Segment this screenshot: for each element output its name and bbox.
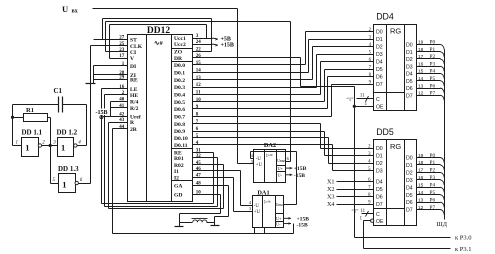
svg-text:X3: X3 (327, 194, 335, 201)
svg-text:D0.2: D0.2 (174, 78, 185, 84)
svg-text:D0.8: D0.8 (174, 122, 185, 128)
wire input node vertical (12, 105, 14, 146)
svg-text:+U: +U (254, 210, 261, 215)
inverter DD1.1 (22, 138, 39, 157)
svg-text:D6: D6 (406, 200, 413, 206)
svg-text:-15B: -15B (96, 110, 108, 116)
svg-text:D0.5: D0.5 (174, 100, 185, 106)
bus entry P1 DD5 (440, 165, 444, 170)
svg-text:D0.3: D0.3 (174, 85, 185, 91)
svg-text:D5: D5 (376, 187, 383, 193)
svg-text:D0: D0 (406, 156, 413, 162)
wire DD4 C (357, 98, 374, 100)
wire DR to OE and P3.0 (193, 57, 301, 59)
svg-text:D0.7: D0.7 (174, 114, 185, 120)
wire ZO to ST loop (94, 39, 128, 41)
wire R1 left to input node (13, 117, 24, 119)
wire DD4 Q4 (417, 73, 441, 75)
svg-text:к Р3.1: к Р3.1 (455, 246, 472, 253)
svg-text:1: 1 (25, 143, 29, 153)
separator right col 3 (172, 148, 193, 150)
wire DD12 pin 40 (111, 101, 128, 103)
wire D0.0 to DD4 D0 (193, 64, 306, 66)
svg-text:▷∞: ▷∞ (266, 152, 274, 157)
wire D0.5 to DD4 D5 (193, 101, 325, 103)
svg-text:X1: X1 (327, 179, 335, 186)
inversion bubble DD1.3 (75, 181, 78, 184)
svg-text:D4: D4 (376, 180, 383, 186)
register DD5 box (374, 140, 417, 226)
wire feedback node down to DD1.3 input (50, 146, 52, 184)
svg-text:R02: R02 (174, 163, 184, 169)
svg-text:P7: P7 (430, 205, 436, 211)
svg-text:1: 1 (61, 143, 65, 153)
svg-text:D7: D7 (376, 82, 383, 88)
bus entry P4 DD5 (440, 187, 444, 192)
wire rail up to DA1 U- (293, 224, 295, 234)
ground bar (86, 83, 96, 85)
svg-text:D6: D6 (376, 75, 383, 81)
wire DD1.2 out up to C1 right plate (78, 145, 87, 147)
svg-text:P6: P6 (430, 197, 436, 203)
svg-text:D5: D5 (406, 193, 413, 199)
svg-text:D0.4: D0.4 (174, 93, 185, 99)
wire DD4 OE (355, 106, 374, 108)
wire D0.11 to DD5 D3 (193, 144, 333, 146)
svg-text:44: 44 (119, 125, 125, 130)
separator right col 2 (172, 61, 193, 63)
wire X3 (337, 196, 374, 198)
svg-text:LE: LE (130, 87, 138, 93)
bus entry P3 DD5 (440, 180, 444, 185)
svg-text:D0.1: D0.1 (174, 70, 185, 76)
bus entry P2 (440, 59, 444, 64)
svg-text:P0: P0 (430, 153, 436, 159)
svg-text:18: 18 (418, 47, 424, 53)
wire DD5 Q4 (417, 187, 441, 189)
inductor core line (192, 218, 208, 220)
svg-text:45: 45 (196, 161, 202, 166)
svg-text:U+: U+ (276, 216, 282, 221)
wire X4 (337, 204, 374, 206)
svg-text:18: 18 (418, 160, 424, 166)
bus entry P5 (440, 81, 444, 86)
wire DD4 Q6 (417, 88, 441, 90)
svg-text:ZO: ZO (174, 50, 183, 56)
svg-text:D3: D3 (376, 52, 383, 58)
svg-text:16: 16 (119, 85, 125, 90)
svg-text:Uвых: Uвых (277, 159, 286, 163)
svg-text:RE: RE (130, 78, 138, 84)
svg-text:RG: RG (390, 27, 401, 36)
wire R1 right feedback (48, 117, 51, 119)
svg-text:OE: OE (376, 219, 384, 225)
svg-text:ШД: ШД (437, 221, 448, 228)
svg-text:D5: D5 (406, 79, 413, 85)
wire D0.8 to DD5 D0 (193, 123, 321, 125)
wire 2R to bottom rail (112, 129, 114, 234)
svg-text:GA: GA (174, 184, 182, 190)
svg-text:к Р3.0: к Р3.0 (455, 234, 472, 241)
DD5 OE bubble (371, 219, 374, 222)
wire DD12 pin 29 (94, 79, 128, 81)
svg-text:DD 1.2: DD 1.2 (57, 128, 78, 136)
bus entry P3 (440, 66, 444, 71)
terminal +5B (213, 38, 219, 39)
svg-text:V: V (130, 56, 134, 62)
DD5 C OE separator (374, 208, 405, 210)
svg-text:D7: D7 (406, 93, 413, 99)
wire DD1.1 out to DD1.2 in (42, 145, 58, 147)
wire Uin vertical down to DA2 +U (237, 9, 239, 164)
bus entry P5 DD5 (440, 195, 444, 200)
svg-text:R/4: R/4 (130, 99, 139, 105)
svg-text:HE: HE (130, 93, 138, 99)
svg-text:Ucc2: Ucc2 (174, 42, 186, 48)
bus entry P0 DD5 (440, 158, 444, 163)
svg-text:D1: D1 (376, 37, 383, 43)
svg-text:“1”: “1” (352, 208, 359, 214)
inversion bubble DD1.1 (38, 144, 41, 147)
svg-text:“1”: “1” (347, 97, 354, 103)
svg-text:Uвых: Uвых (276, 203, 285, 207)
svg-text:+15B: +15B (294, 166, 307, 172)
svg-text:D4: D4 (406, 185, 413, 191)
wire D0.7 to DD4 D7 (193, 116, 332, 118)
svg-text:D2: D2 (376, 45, 383, 51)
register DD4 box (374, 25, 417, 111)
svg-text:D0.11: D0.11 (174, 143, 188, 149)
svg-text:C: C (376, 97, 380, 103)
wire D0.4 to DD4 D4 (193, 94, 321, 96)
svg-text:DI: DI (130, 64, 136, 70)
wire X2 (337, 189, 374, 191)
svg-text:DA1: DA1 (257, 190, 269, 197)
DA2 cell separators (277, 165, 286, 167)
resistor R1 (24, 114, 48, 122)
wire +5B to V loop (109, 25, 111, 59)
svg-text:D2: D2 (406, 171, 413, 177)
svg-text:+15B: +15B (221, 43, 234, 49)
svg-text:D6: D6 (376, 195, 383, 201)
svg-text:D1: D1 (406, 163, 413, 169)
svg-text:вх: вх (72, 8, 78, 14)
DA1 cell separators (276, 213, 284, 215)
wire DA2 U+ supply (285, 167, 292, 169)
svg-text:OE: OE (376, 104, 384, 110)
data bus ShD (444, 50, 446, 220)
svg-text:D3: D3 (376, 169, 383, 175)
wire DD5 Q3 (417, 179, 441, 181)
svg-text:25: 25 (119, 42, 125, 47)
wire DD5 Q6 (417, 202, 441, 204)
wire R to R02 wrap (108, 123, 110, 209)
wire DA2 output to CI loop (105, 22, 107, 52)
svg-text:D0: D0 (376, 30, 383, 36)
svg-text:D1: D1 (406, 50, 413, 56)
wire I2 to DA1 noninverting (193, 177, 234, 179)
wire DD12 pin 41 (111, 107, 128, 109)
wire X1 (337, 181, 374, 183)
separator right col 4 (172, 180, 193, 182)
wire DD5 C (362, 213, 374, 215)
wire DD4 Q5 (417, 80, 441, 82)
wire DA2 inverting input (251, 158, 254, 160)
wire to DD1.1 input (13, 145, 22, 147)
wire DD12 pin 27 (94, 39, 128, 41)
wire inductor left (179, 214, 181, 227)
ground left of inductor (175, 226, 184, 228)
wire DA1 out feedback to DA2 (251, 151, 297, 153)
wire R/4 R/2 tie (110, 102, 112, 117)
wire GD (193, 194, 221, 196)
svg-text:X2: X2 (327, 186, 335, 193)
svg-text:U+: U+ (278, 166, 284, 171)
svg-text:P1: P1 (430, 47, 436, 53)
bus entry P2 DD5 (440, 172, 444, 177)
svg-text:∿#: ∿# (154, 40, 163, 47)
svg-text:D7: D7 (406, 208, 413, 214)
svg-text:17: 17 (418, 54, 424, 60)
svg-text:U-: U- (278, 173, 283, 178)
svg-text:D0: D0 (406, 43, 413, 49)
svg-text:D7: D7 (376, 202, 383, 208)
wire D0.3 to DD4 D3 (193, 87, 317, 89)
wire DD12 pin 44 (113, 128, 128, 130)
svg-text:32: 32 (196, 154, 202, 159)
wire DD12 pin 16 (102, 88, 128, 90)
terminal -15B circle (100, 116, 103, 119)
op-amp DA2 box (254, 150, 286, 183)
wire DD12 pin 1 (94, 65, 128, 67)
svg-text:+U: +U (256, 163, 263, 168)
svg-text:P2: P2 (430, 54, 436, 60)
svg-text:DA2: DA2 (264, 142, 276, 149)
label -15B (95, 109, 110, 116)
svg-text:D0.6: D0.6 (174, 107, 185, 113)
svg-text:D2: D2 (406, 57, 413, 63)
svg-text:D5: D5 (376, 67, 383, 73)
svg-text:D3: D3 (406, 64, 413, 70)
svg-text:-15B: -15B (294, 173, 305, 179)
terminal +15B (213, 44, 219, 45)
wire DD5 Q0 (417, 157, 441, 159)
wire D0.2 to DD4 D2 (193, 79, 313, 81)
svg-text:16: 16 (418, 175, 424, 181)
bus entry P7 (440, 95, 444, 100)
svg-text:D3: D3 (406, 178, 413, 184)
svg-text:U: U (62, 4, 68, 14)
svg-text:D0: D0 (376, 146, 383, 152)
wire DD5 OE to P3.1 (364, 220, 371, 222)
svg-text:X4: X4 (327, 201, 335, 208)
svg-text:R/2: R/2 (130, 106, 139, 112)
wire DD12 pin 23 (106, 51, 128, 53)
svg-text:DD12: DD12 (147, 26, 170, 36)
wire DA1 output (284, 204, 297, 206)
svg-text:P4: P4 (430, 183, 436, 189)
svg-text:P4: P4 (430, 69, 436, 75)
svg-text:DD5: DD5 (376, 127, 394, 137)
svg-text:U-: U- (276, 222, 281, 227)
svg-text:P5: P5 (430, 190, 436, 196)
svg-text:D4: D4 (376, 60, 383, 66)
wire DA1 U- supply (284, 223, 292, 225)
svg-text:-15B: -15B (297, 222, 308, 228)
wire Uin to DA2 noninverting input (238, 163, 254, 165)
svg-text:C1: C1 (54, 87, 63, 95)
ground right of inductor (211, 225, 220, 227)
svg-text:P7: P7 (430, 91, 436, 97)
separator right col 1 (172, 48, 193, 50)
wire Ucc1 pin 3 (193, 38, 213, 40)
svg-text:P5: P5 (430, 76, 436, 82)
bus entry P4 (440, 73, 444, 78)
svg-text:15: 15 (196, 61, 202, 66)
bus entry P6 DD5 (440, 202, 444, 207)
wire rail stub DA1 b (264, 228, 266, 234)
wire inductor right (207, 222, 215, 224)
svg-text:D6: D6 (406, 86, 413, 92)
op-amp DA1 box (253, 196, 284, 228)
svg-text:-U: -U (256, 157, 262, 162)
svg-text:D0.10: D0.10 (174, 136, 188, 142)
wire DD5 Q1 (417, 164, 441, 166)
wire to P3.0 (355, 237, 451, 239)
svg-text:CI: CI (130, 50, 136, 56)
bus entry P7 DD5 (440, 210, 444, 215)
svg-text:D1: D1 (376, 154, 383, 160)
wire DD5 Q2 (417, 172, 441, 174)
svg-text:DD4: DD4 (376, 12, 394, 22)
wire D0.9 to DD5 D1 (193, 131, 325, 133)
wire DD12 pin 2 (105, 94, 128, 96)
wire DD4 Q3 (417, 66, 441, 68)
junction DD4 OE (353, 105, 356, 108)
svg-text:P0: P0 (430, 40, 436, 46)
wire DD5 Q7 (417, 209, 441, 211)
op-amp block DD12 box (128, 35, 193, 202)
wire DD4 Q1 (417, 51, 441, 53)
svg-text:D4: D4 (406, 72, 413, 78)
inversion bubble DD1.2 (74, 144, 77, 147)
wire D0.6 to DD4 D6 (193, 108, 328, 110)
svg-text:26: 26 (196, 54, 202, 59)
wire DD4 Q0 (417, 44, 441, 46)
svg-text:DD 1.1: DD 1.1 (22, 128, 43, 136)
wire HE to R01 wrap (104, 95, 106, 207)
svg-text:14: 14 (418, 190, 424, 196)
svg-text:46: 46 (196, 167, 202, 172)
wire DA1 U+ supply (284, 217, 292, 219)
DD4 C OE separator (374, 92, 405, 94)
svg-text:41: 41 (119, 104, 125, 109)
wire Ucc2 pin 24 (193, 44, 213, 46)
junction feedback node (49, 144, 52, 147)
inverter DD1.2 (58, 138, 74, 157)
wire DD4 Q2 (417, 58, 441, 60)
svg-text:I1: I1 (174, 169, 179, 175)
bus entry P1 (440, 52, 444, 57)
svg-text:DD 1.3: DD 1.3 (58, 165, 79, 173)
wire DD12 pin 43 (109, 122, 128, 124)
wire I1 to DA1 inverting (193, 170, 241, 172)
wire DD12 pin 28 (94, 74, 128, 76)
svg-text:P1: P1 (430, 160, 436, 166)
svg-text:R1: R1 (26, 107, 34, 114)
wire C1 left plate to input node (13, 104, 59, 106)
svg-text:▷∞: ▷∞ (264, 199, 272, 204)
svg-text:10: 10 (196, 98, 202, 103)
svg-text:2R: 2R (130, 127, 138, 133)
wire rail stub DA1 a (254, 228, 256, 234)
svg-text:1: 1 (16, 140, 19, 145)
wire DD4 Q7 (417, 95, 441, 97)
svg-text:CLK: CLK (130, 44, 143, 50)
wire DD1.3 out up to CLK (79, 183, 91, 185)
svg-text:P3: P3 (430, 175, 436, 181)
svg-text:D0.9: D0.9 (174, 129, 185, 135)
wire LE to RE wrap (101, 89, 103, 204)
inverter DD1.3 (59, 174, 76, 193)
svg-text:D0.0: D0.0 (174, 63, 185, 69)
inductor ZQ (193, 220, 207, 222)
svg-text:DR: DR (174, 56, 183, 62)
junction input-R1 (11, 116, 14, 119)
svg-text:13: 13 (196, 76, 202, 81)
svg-text:23: 23 (119, 48, 125, 53)
svg-text:11: 11 (360, 94, 365, 99)
wire D0.10 to DD5 D2 (193, 137, 329, 139)
svg-text:D2: D2 (376, 161, 383, 167)
svg-text:C: C (376, 212, 380, 218)
svg-text:P3: P3 (430, 62, 436, 68)
bus entry P0 (440, 44, 444, 49)
wire DA2 U- supply (285, 174, 292, 176)
svg-text:R01: R01 (174, 156, 184, 162)
wire DI ZI RE common (93, 66, 95, 84)
node Uin input wire (93, 8, 238, 10)
svg-text:-U: -U (254, 204, 260, 209)
svg-text:P6: P6 (430, 83, 436, 89)
wire DD5 Q5 (417, 194, 441, 196)
wire -15B to Uref (103, 116, 128, 118)
svg-text:GD: GD (174, 193, 182, 199)
wire GA (193, 185, 229, 187)
wire D0.1 to DD4 D1 (193, 72, 309, 74)
svg-text:RG: RG (390, 142, 401, 151)
svg-text:ST: ST (130, 38, 137, 44)
svg-text:I2: I2 (174, 175, 179, 181)
capacitor C1 (58, 97, 60, 113)
svg-text:1: 1 (62, 179, 66, 189)
svg-text:P2: P2 (430, 168, 436, 174)
wire DD12 pin 17 (110, 58, 128, 60)
svg-text:14: 14 (418, 76, 424, 82)
bus entry P6 (440, 88, 444, 93)
